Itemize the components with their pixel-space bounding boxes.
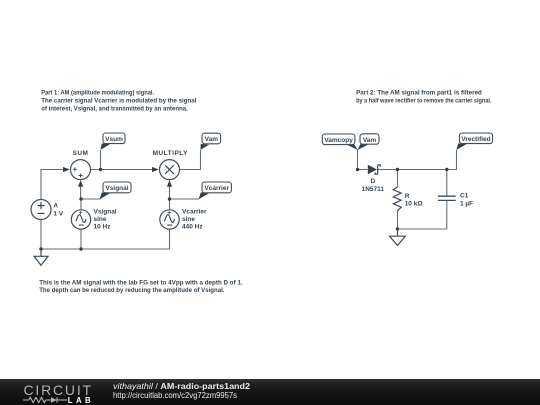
wire: flag stem down to diode anode [357,150,359,170]
footer logo circuit squiggle with resistor and diode [23,397,67,402]
svg-text:Vam: Vam [363,137,377,144]
junction: resistor top [396,168,399,171]
flag Vrectified [456,133,492,150]
svg-text:http://circuitlab.com/c2vg72zm: http://circuitlab.com/c2vg72zm9957s [113,391,237,400]
label MULTIPLY [153,150,189,157]
arrow into SUM left [63,167,70,172]
flag Vsum [100,133,125,150]
junction: resistor bottom / ground [396,227,399,230]
source Vsignal sine 10 Hz [71,210,90,229]
junction: capacitor top [445,168,448,171]
svg-text:Vcarrier: Vcarrier [182,209,207,216]
heading part 2 [356,89,492,104]
flag Vcarrier [199,182,232,199]
svg-text:sine: sine [182,216,195,223]
wire: Vsignal flag stem [81,198,100,200]
wire: resistor top lead [397,170,399,188]
junction: diode anode node [356,168,359,171]
svg-text:by a half wave rectifier to re: by a half wave rectifier to remove the c… [356,97,492,104]
wire: Vsignal source bottom to rail [80,229,82,249]
svg-text:440 Hz: 440 Hz [182,224,203,231]
svg-text:Vsignal: Vsignal [94,209,117,216]
voltage source A 1V [31,200,51,220]
svg-text:A: A [53,203,58,210]
svg-text:SUM: SUM [73,150,89,157]
wire: diode anode lead [358,169,368,171]
svg-text:D: D [370,178,375,185]
wire: Vsum flag stem [100,150,102,170]
junction: ground rail at Vsignal [79,247,82,250]
multiplier MULTIPLY [160,160,180,180]
heading part 1 [41,90,196,113]
footer logo LAB [68,396,94,405]
op-amp-style summer SUM [71,160,91,180]
svg-text:Vam: Vam [205,136,219,143]
label SUM [73,150,89,157]
wire: bottom rail left circuit [41,229,170,249]
wire: bottom rail right circuit [398,228,447,230]
footer bar [0,379,540,405]
svg-text:This is the AM signal with the: This is the AM signal with the lab FG se… [39,280,243,287]
wire: A top to SUM left [41,170,64,200]
source Vcarrier sine 440 Hz [160,210,179,229]
footer logo CIRCUIT [24,382,93,398]
diode D 1N5711 [368,165,381,175]
svg-text:10 kΩ: 10 kΩ [405,201,423,208]
junction: ground rail at A [39,247,42,250]
wire: resistor bottom lead [397,211,399,229]
junction: Vsignal tap [79,197,82,200]
wire: capacitor top lead [446,170,448,197]
capacitor C1 1uF [438,196,456,200]
flag Vam (right) [357,134,379,150]
wire: SUM output to MULTIPLY input [91,169,154,171]
svg-text:1 µF: 1 µF [460,200,473,207]
svg-text:Vcarrier: Vcarrier [204,185,229,192]
svg-text:Vsignal: Vsignal [105,185,128,192]
svg-text:Vamcopy: Vamcopy [324,137,353,144]
wire: A bottom to ground rail [40,220,42,250]
label R 10 kOhm [405,193,423,208]
wire: diode cathode to Vrectified corner [378,150,457,170]
svg-text:sine: sine [94,216,107,223]
label C1 1 uF [460,193,473,208]
svg-text:Vrectified: Vrectified [461,136,490,143]
svg-text:10 Hz: 10 Hz [94,224,112,231]
wire: MULTIPLY bottom input from Vcarrier source [169,186,171,210]
arrow into SUM bottom [78,180,83,187]
label D 1N5711 [362,178,385,193]
svg-text:1N5711: 1N5711 [362,186,385,193]
svg-text:Part 1: AM (amplitude modulati: Part 1: AM (amplitude modulating) signal… [41,90,154,97]
arrow into MULTIPLY bottom [167,180,172,187]
arrow into MULTIPLY left [152,167,159,172]
svg-text:of interest, Vsignal, and tran: of interest, Vsignal, and transmitted by… [41,106,188,113]
label Vcarrier sine 440 Hz [182,209,207,231]
wire: SUM bottom input from Vsignal source [80,186,82,210]
svg-text:Part 2: The AM signal from par: Part 2: The AM signal from part1 is filt… [356,89,482,96]
resistor R 10 kOhm [393,187,401,211]
label A 1 V [53,203,63,218]
svg-text:R: R [405,193,410,200]
svg-text:vithayathil / AM-radio-parts1a: vithayathil / AM-radio-parts1and2 [113,382,250,391]
flag Vamcopy [322,134,357,150]
wire: capacitor bottom lead [446,201,448,229]
junction: Vcarrier tap [168,197,171,200]
footer title text [113,382,250,400]
svg-text:1 V: 1 V [53,210,63,217]
svg-text:C1: C1 [460,193,469,200]
svg-text:LAB: LAB [68,396,94,405]
flag Vam (left) [200,133,220,150]
svg-text:The depth can be reduced by re: The depth can be reduced by reducing the… [39,287,224,294]
ground right [390,229,406,245]
wire: Vcarrier flag stem [170,198,200,200]
flag Vsignal [100,182,131,199]
junction: Vsum tap [99,168,102,171]
svg-text:Vsum: Vsum [105,136,123,143]
ground left [34,249,48,265]
svg-text:The carrier signal Vcarrier is: The carrier signal Vcarrier is modulated… [41,98,196,105]
note text bottom [39,280,243,294]
wire: MULTIPLY output to Vam flag [180,150,201,170]
label Vsignal sine 10 Hz [94,209,117,231]
svg-text:MULTIPLY: MULTIPLY [153,150,189,157]
